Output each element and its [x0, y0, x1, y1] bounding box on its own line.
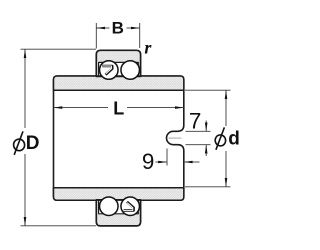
- 9 dim lines: [156, 161, 168, 163]
- L left / right: [54, 106, 63, 109]
- 9 extension line: [166, 149, 168, 166]
- bottom-left ball: [100, 197, 119, 216]
- bottom band (sleeve wall, hatched): [54, 188, 184, 201]
- phid extension lines: [185, 89, 231, 91]
- bottom bearing outer ring: [96, 200, 140, 226]
- 7 dim arrows lines: [205, 121, 207, 132]
- arrowheads: [24, 27, 228, 226]
- top band (sleeve wall, hatched): [54, 76, 184, 90]
- bottom-right ball: [121, 197, 140, 216]
- B extension lines: [95, 23, 97, 49]
- phiD extension lines: [21, 48, 97, 50]
- svg-text:D: D: [26, 133, 40, 154]
- svg-text:d: d: [228, 129, 240, 150]
- band seat line under top bearing: [96, 75, 140, 77]
- svg-text:7: 7: [189, 108, 202, 133]
- svg-text:r: r: [144, 38, 152, 58]
- svg-text:L: L: [113, 98, 124, 118]
- top-right ball: [121, 61, 140, 80]
- phiD up / down: [24, 49, 27, 58]
- svg-text:9: 9: [142, 149, 155, 174]
- phiD dim line: [24, 49, 26, 130]
- top bearing outer ring: [96, 50, 140, 76]
- band seat line under bottom bearing: [96, 199, 140, 201]
- L dim line: [54, 107, 109, 109]
- 7 down / up: [205, 123, 208, 132]
- centerline: [56, 137, 182, 139]
- cage mark in top-left ball: [102, 66, 112, 75]
- cage mark in bottom-right ball: [124, 202, 134, 211]
- B dim line: [96, 27, 109, 29]
- phiD: [10, 128, 41, 155]
- 9 right / left: [158, 161, 167, 164]
- sleeve body outline (with right-end slot): [54, 76, 184, 200]
- B left / right: [96, 27, 105, 30]
- bottom ring cavity: [99, 200, 139, 214]
- 7 extension lines: [186, 130, 211, 132]
- phid dim line: [225, 90, 227, 128]
- svg-text:B: B: [112, 19, 124, 38]
- phid up / down: [225, 90, 228, 99]
- top-left ball: [100, 61, 119, 80]
- phid: [212, 126, 242, 151]
- top ring cavity: [99, 62, 139, 76]
